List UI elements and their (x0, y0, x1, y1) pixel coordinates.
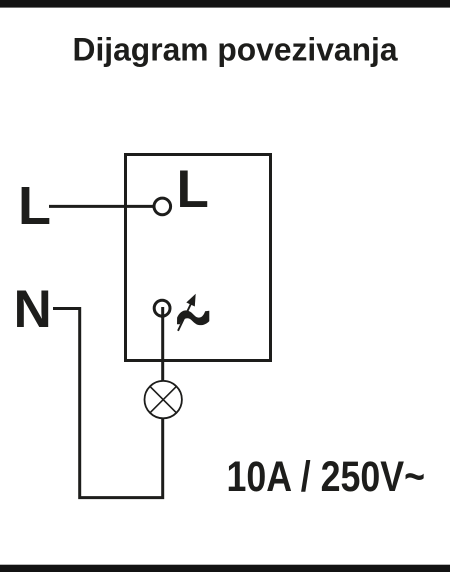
node L terminal (top circle) (154, 198, 171, 215)
wire: L to top terminal (49, 205, 154, 208)
lamp (circle with cross) (145, 381, 182, 418)
wire: lamp top to dimmer terminal (161, 307, 164, 382)
svg-text:N: N (14, 280, 52, 339)
svg-text:L: L (18, 176, 51, 236)
node dimmer terminal (bottom circle) (154, 300, 170, 316)
dimmer symbol: arrow shaft (178, 300, 193, 331)
bottom black bar (0, 565, 450, 572)
dimmer symbol: bold tilde (177, 310, 209, 325)
svg-text:Dijagram povezivanja: Dijagram povezivanja (73, 32, 398, 68)
switch box (126, 155, 271, 361)
wire: N down around to lamp (53, 309, 163, 498)
dimmer symbol: arrow head (186, 294, 195, 307)
wire stub from terminal center (161, 307, 164, 318)
svg-text:10A / 250V~: 10A / 250V~ (227, 453, 426, 501)
top black bar (0, 0, 450, 8)
svg-text:L: L (177, 160, 209, 219)
